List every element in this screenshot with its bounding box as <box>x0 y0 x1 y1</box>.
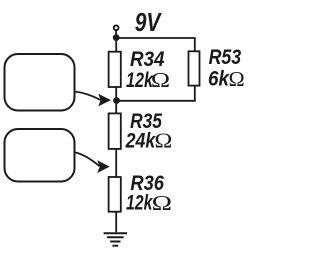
svg-text:Ω: Ω <box>229 67 245 91</box>
ground <box>104 233 128 246</box>
svg-text:24k: 24k <box>125 128 156 152</box>
svg-text:Ω: Ω <box>151 68 170 92</box>
svg-text:6k: 6k <box>208 67 230 91</box>
svg-text:9V: 9V <box>135 7 163 37</box>
node A junction dot <box>113 97 120 104</box>
wire down to R53 top <box>194 38 196 51</box>
svg-text:12k: 12k <box>126 191 153 215</box>
resistor R34 <box>109 52 121 87</box>
callout box 1 <box>5 54 75 111</box>
arrowhead to node A <box>98 94 111 107</box>
arrowhead to node B <box>97 160 110 173</box>
resistor R36 <box>109 177 121 212</box>
wire R36 to ground <box>115 212 117 233</box>
wire R35 to R36 (node B) <box>115 149 117 177</box>
connector from box 1 <box>75 92 101 101</box>
wire top horizontal to R53 <box>116 37 196 39</box>
wire R53 bottom <box>194 87 196 101</box>
junction dot top <box>113 34 120 41</box>
wire junction to R34 top <box>115 38 117 52</box>
connector from box 2 <box>76 153 100 167</box>
wire bottom horizontal back to node A <box>116 100 196 102</box>
resistor R53 <box>189 51 200 85</box>
resistor R35 <box>109 113 121 148</box>
9V supply terminal <box>114 25 119 30</box>
svg-text:12k: 12k <box>126 68 154 92</box>
callout box 2 <box>5 129 75 182</box>
svg-text:Ω: Ω <box>155 129 173 153</box>
wire terminal to junction <box>115 30 117 34</box>
wire R34 bottom to node A <box>115 87 117 113</box>
svg-text:R53: R53 <box>209 45 242 69</box>
svg-text:Ω: Ω <box>152 191 172 215</box>
